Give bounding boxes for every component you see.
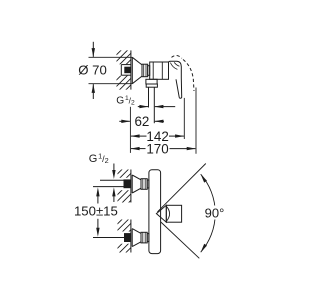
svg-text:90°: 90° bbox=[205, 206, 225, 221]
svg-text:170: 170 bbox=[146, 141, 168, 156]
svg-text:150±15: 150±15 bbox=[74, 204, 118, 219]
svg-text:62: 62 bbox=[134, 114, 149, 129]
svg-text:Ø 70: Ø 70 bbox=[78, 62, 107, 77]
